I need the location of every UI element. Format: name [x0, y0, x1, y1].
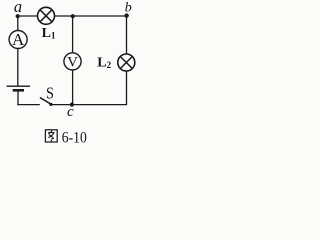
node c dot [70, 103, 74, 107]
lamp L2 (circle with X) [118, 54, 135, 71]
voltmeter V [64, 53, 81, 71]
node b dot [124, 13, 128, 17]
svg-text:S: S [46, 84, 54, 102]
wire bottom-left (corner to switch left contact) [17, 104, 40, 106]
wire bottom (switch pivot through c to bottom-right corner) [51, 104, 127, 106]
node top junction dot (voltmeter branch) [71, 14, 75, 18]
svg-text:A: A [12, 30, 25, 49]
wire left (a down to battery) [17, 16, 19, 86]
svg-text:V: V [67, 54, 78, 70]
wire right (b down to bottom-right corner) [126, 16, 128, 105]
wire top (a to b) [18, 15, 127, 17]
battery short thick plate (negative) [13, 89, 24, 92]
svg-text:c: c [67, 104, 74, 120]
svg-text:a: a [14, 0, 22, 16]
svg-text:6-10: 6-10 [62, 130, 87, 147]
switch S blade [40, 98, 51, 105]
lamp L1 (circle with X) [38, 7, 55, 24]
wire voltmeter branch (top junction down to c) [72, 16, 74, 105]
battery long plate (positive) [7, 85, 31, 87]
caption character 图 (drawn) [45, 130, 57, 142]
switch S pivot dot [49, 103, 52, 106]
ammeter A [9, 30, 27, 49]
svg-text:L1: L1 [42, 26, 56, 41]
wire battery to bottom-left corner [17, 91, 19, 105]
svg-text:L2: L2 [97, 56, 111, 71]
node a dot [16, 14, 20, 18]
svg-text:b: b [125, 1, 132, 16]
